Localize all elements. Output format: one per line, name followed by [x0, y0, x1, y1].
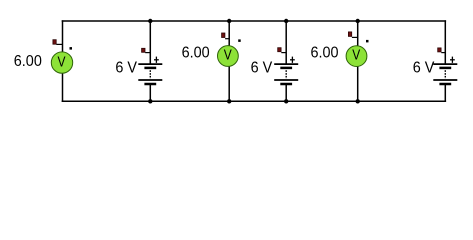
node voltmeter M3 bottom junction [356, 99, 360, 103]
value label B1 6 V [115, 59, 137, 77]
svg-text:V: V [224, 46, 232, 63]
wire top bus [62, 20, 446, 22]
node battery B1 top junction [148, 19, 152, 23]
terminal dot M2 - terminal [238, 39, 241, 42]
wire battery B3 bottom lead [444, 84, 446, 102]
battery B1 [138, 64, 162, 84]
battery B2 [274, 64, 298, 84]
value label M3 reading 6.00 [311, 44, 339, 62]
polarity marker B1 + terminal [142, 48, 151, 52]
svg-text:6.00: 6.00 [182, 44, 210, 62]
svg-text:6 V: 6 V [115, 59, 137, 77]
svg-text:V: V [352, 46, 360, 63]
svg-text:V: V [57, 53, 65, 70]
wire voltmeter M2 branch [228, 21, 230, 101]
value label B3 6 V [413, 59, 435, 77]
svg-text:6 V: 6 V [251, 59, 273, 77]
wire battery B3 top lead [444, 20, 446, 64]
node battery B1 bottom junction [148, 99, 152, 103]
svg-text:6 V: 6 V [413, 59, 435, 77]
wire battery B1 top lead [149, 21, 151, 64]
polarity marker M2 + terminal [222, 33, 230, 39]
plus sign B2 [290, 57, 295, 63]
value label B2 6 V [251, 59, 273, 77]
node battery B2 top junction [284, 19, 288, 23]
voltmeter M1 [51, 52, 72, 73]
polarity marker M1 + terminal [53, 40, 63, 45]
polarity marker B2 + terminal [278, 48, 287, 53]
wire voltmeter M1 branch [62, 20, 64, 102]
polarity marker M3 + terminal [348, 32, 357, 38]
node battery B2 bottom junction [284, 99, 288, 103]
wire battery B2 bottom lead [285, 84, 287, 101]
wire battery B2 top lead [285, 21, 287, 64]
wire voltmeter M3 branch [357, 21, 359, 101]
terminal dot M3 - terminal [366, 40, 369, 43]
plus sign B3 [450, 57, 455, 63]
terminal dot M1 - terminal [70, 47, 73, 50]
svg-text:6.00: 6.00 [311, 44, 339, 62]
polarity marker B3 + terminal [438, 48, 446, 53]
voltmeter M3 [346, 46, 367, 67]
node voltmeter M2 top junction [227, 19, 231, 23]
battery B3 [433, 64, 457, 84]
value label M2 reading 6.00 [182, 44, 210, 62]
wire battery B1 bottom lead [149, 84, 151, 101]
plus sign B1 [154, 57, 159, 63]
svg-text:6.00: 6.00 [14, 53, 42, 71]
wire bottom bus [62, 100, 446, 102]
node voltmeter M3 top junction [356, 19, 360, 23]
voltmeter M2 [218, 46, 239, 67]
node voltmeter M2 bottom junction [227, 99, 231, 103]
value label M1 reading 6.00 [14, 53, 42, 71]
